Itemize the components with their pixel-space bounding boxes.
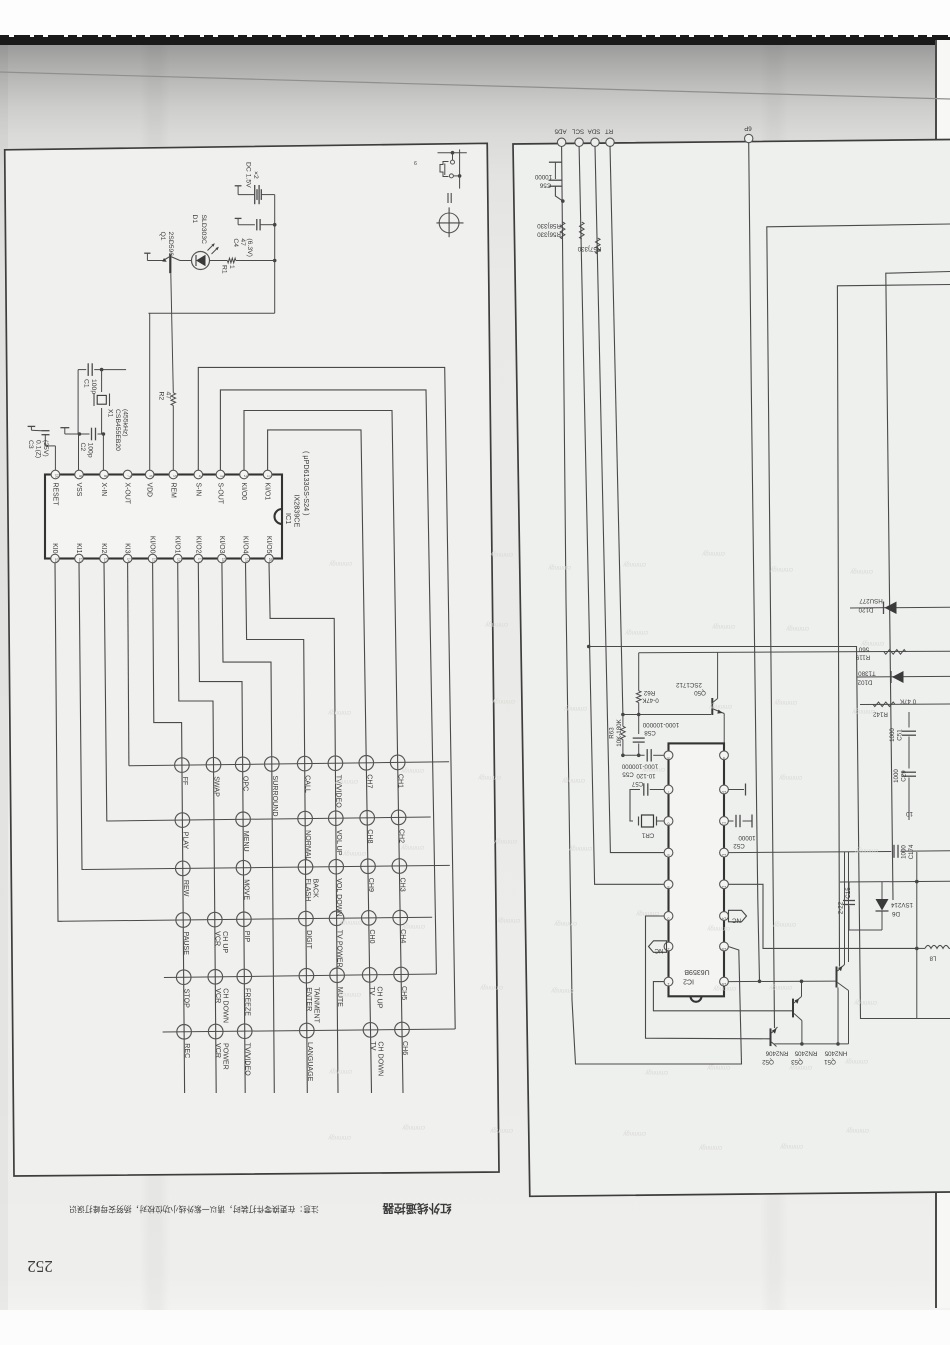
svg-text:KI0: KI0 <box>51 543 58 554</box>
svg-text:cmmngy: cmmngy <box>622 561 646 567</box>
svg-text:TV: TV <box>369 1041 377 1050</box>
svg-text:cmmngy: cmmngy <box>561 777 585 783</box>
svg-text:cmmngy: cmmngy <box>484 621 508 627</box>
svg-text:13: 13 <box>721 885 726 890</box>
svg-text:C56: C56 <box>539 182 551 189</box>
svg-text:KI/O4: KI/O4 <box>242 536 249 554</box>
svg-text:CH7: CH7 <box>365 774 373 788</box>
svg-text:10: 10 <box>54 474 59 479</box>
svg-text:KI/O1: KI/O1 <box>264 483 271 501</box>
svg-text:(25V): (25V) <box>42 440 49 457</box>
svg-text:红外线遥控器: 红外线遥控器 <box>382 1202 451 1216</box>
svg-text:cmmngy: cmmngy <box>778 774 802 780</box>
svg-text:L8: L8 <box>929 955 936 962</box>
svg-text:100p: 100p <box>86 443 93 458</box>
svg-text:cmmngy: cmmngy <box>337 991 361 997</box>
svg-text:R58}330: R58}330 <box>537 222 561 229</box>
svg-text:47: 47 <box>165 392 172 400</box>
svg-text:KI/O5: KI/O5 <box>265 536 272 554</box>
svg-text:cmmngy: cmmngy <box>334 778 358 784</box>
svg-text:cmmngy: cmmngy <box>477 774 501 780</box>
svg-text:SURROUND: SURROUND <box>271 776 279 817</box>
svg-text:Q50: Q50 <box>694 689 706 696</box>
svg-text:HSU277: HSU277 <box>859 597 883 604</box>
svg-text:13: 13 <box>103 558 108 563</box>
svg-text:11: 11 <box>721 822 726 827</box>
svg-text:cmmngy: cmmngy <box>338 919 362 925</box>
svg-text:1: 1 <box>228 265 235 269</box>
svg-text:STOP: STOP <box>183 989 191 1008</box>
svg-text:KI/O2: KI/O2 <box>194 536 201 554</box>
svg-text:cmmngy: cmmngy <box>772 921 796 927</box>
svg-text:12: 12 <box>721 853 726 858</box>
svg-text:10000: 10000 <box>534 173 552 180</box>
svg-text:cmmngy: cmmngy <box>708 703 732 709</box>
svg-text:1000-100000: 1000-100000 <box>642 721 679 728</box>
svg-text:cmmngy: cmmngy <box>563 705 587 711</box>
svg-text:cmmngy: cmmngy <box>851 708 875 714</box>
svg-text:PLAY: PLAY <box>181 832 189 850</box>
svg-text:6P: 6P <box>744 125 752 132</box>
svg-text:D120: D120 <box>858 606 873 613</box>
svg-text:cmmngy: cmmngy <box>550 987 574 993</box>
svg-text:cmmngy: cmmngy <box>547 564 571 570</box>
svg-text:1000: 1000 <box>893 769 900 783</box>
svg-text:KI1: KI1 <box>75 543 82 554</box>
svg-text:cmmngy: cmmngy <box>401 1124 425 1130</box>
svg-text:10000: 10000 <box>738 834 756 841</box>
svg-text:cmmngy: cmmngy <box>401 923 425 929</box>
svg-text:17: 17 <box>197 558 202 563</box>
svg-text:VCR: VCR <box>213 931 221 946</box>
svg-text:VDD: VDD <box>146 483 153 498</box>
svg-text:ENTER: ENTER <box>305 987 313 1011</box>
svg-text:R56}330: R56}330 <box>537 231 561 238</box>
svg-text:C174: C174 <box>908 844 915 859</box>
svg-text:0-47K: 0-47K <box>641 697 658 704</box>
svg-text:cmmngy: cmmngy <box>853 999 877 1005</box>
svg-text:Q1: Q1 <box>159 232 166 241</box>
svg-text:R63: R63 <box>609 727 616 739</box>
svg-text:DC 1.5V: DC 1.5V <box>245 162 252 188</box>
svg-text:NC: NC <box>732 917 741 924</box>
svg-text:cmmngy: cmmngy <box>773 699 797 705</box>
svg-text:VOL UP: VOL UP <box>335 830 343 856</box>
svg-text:X1: X1 <box>107 409 114 418</box>
svg-text:cmmngy: cmmngy <box>712 985 736 991</box>
svg-text:FLASH: FLASH <box>304 879 312 902</box>
svg-text:Q53: Q53 <box>791 1058 803 1065</box>
svg-text:POWER: POWER <box>222 1043 230 1070</box>
svg-text:RESET: RESET <box>51 483 58 507</box>
svg-text:cmmngy: cmmngy <box>496 917 520 923</box>
svg-text:C29: C29 <box>901 770 908 782</box>
svg-text:19: 19 <box>245 558 250 563</box>
svg-text:cmmngy: cmmngy <box>706 1064 730 1070</box>
svg-text:CALL: CALL <box>304 775 312 793</box>
svg-text:cmmngy: cmmngy <box>706 925 730 931</box>
svg-text:cmmngy: cmmngy <box>400 767 424 773</box>
svg-text:cmmngy: cmmngy <box>491 698 515 704</box>
svg-text:HN2405: HN2405 <box>824 1050 847 1057</box>
svg-text:CH1: CH1 <box>397 774 405 788</box>
svg-text:cmmngy: cmmngy <box>644 1069 668 1075</box>
svg-text:cmmngy: cmmngy <box>493 838 517 844</box>
svg-text:cmmngy: cmmngy <box>785 625 809 631</box>
svg-text:MOVE: MOVE <box>243 879 251 900</box>
svg-text:cmmngy: cmmngy <box>641 766 665 772</box>
svg-text:CH2: CH2 <box>398 829 406 843</box>
svg-text:SWAP: SWAP <box>213 776 221 797</box>
svg-text:cmmngy: cmmngy <box>328 560 352 566</box>
svg-text:NC: NC <box>654 947 663 954</box>
svg-text:CH5: CH5 <box>400 986 408 1000</box>
svg-text:VSS: VSS <box>75 483 82 497</box>
svg-text:C51: C51 <box>897 729 904 741</box>
svg-text:2SD596: 2SD596 <box>167 232 174 257</box>
svg-text:cmmngy: cmmngy <box>489 1127 513 1133</box>
svg-text:IC1: IC1 <box>284 513 293 524</box>
svg-text:AD5: AD5 <box>554 128 567 135</box>
svg-text:12: 12 <box>78 558 83 563</box>
svg-text:9: 9 <box>414 159 417 165</box>
svg-text:( μPD6133GS-S24 ): ( μPD6133GS-S24 ) <box>302 451 311 515</box>
svg-text:cmmngy: cmmngy <box>768 984 792 990</box>
svg-text:14: 14 <box>721 917 726 922</box>
svg-text:(6.3V): (6.3V) <box>246 238 253 257</box>
svg-text:KI/O0: KI/O0 <box>240 483 247 501</box>
svg-text:Q52: Q52 <box>762 1058 774 1065</box>
svg-text:X-IN: X-IN <box>100 483 107 497</box>
svg-text:LANGUAGE: LANGUAGE <box>306 1042 314 1082</box>
svg-text:cmmngy: cmmngy <box>400 844 424 850</box>
svg-text:18: 18 <box>221 558 226 563</box>
svg-text:R1: R1 <box>221 265 228 274</box>
svg-text:2-22: 2-22 <box>838 901 845 914</box>
svg-text:10: 10 <box>906 810 913 817</box>
svg-text:C3: C3 <box>27 440 34 449</box>
svg-text:cmmngy: cmmngy <box>711 623 735 629</box>
svg-text:TV: TV <box>368 986 376 995</box>
svg-text:cmmngy: cmmngy <box>844 1058 868 1064</box>
svg-text:CH6: CH6 <box>401 1041 409 1055</box>
svg-text:CH UP: CH UP <box>376 986 384 1008</box>
svg-text:cmmngy: cmmngy <box>860 640 884 646</box>
svg-text:CH DOWN: CH DOWN <box>377 1041 385 1076</box>
svg-text:CH4: CH4 <box>399 929 407 943</box>
svg-text:RN2405: RN2405 <box>794 1050 817 1057</box>
svg-text:CH8: CH8 <box>366 829 374 843</box>
svg-text:PAUSE: PAUSE <box>182 932 190 956</box>
svg-text:cmmngy: cmmngy <box>327 709 351 715</box>
svg-text:U6359B: U6359B <box>684 968 710 975</box>
svg-text:16: 16 <box>177 558 182 563</box>
svg-text:SDA: SDA <box>587 128 601 135</box>
svg-text:cmmngy: cmmngy <box>479 984 503 990</box>
svg-text:cmmngy: cmmngy <box>622 1130 646 1136</box>
svg-text:CSB455EB20: CSB455EB20 <box>114 409 121 451</box>
svg-text:X-OUT: X-OUT <box>124 483 131 505</box>
svg-text:Q51: Q51 <box>824 1058 836 1065</box>
svg-text:×2: ×2 <box>252 171 259 179</box>
svg-text:cmmngy: cmmngy <box>698 1144 722 1150</box>
svg-text:VCR: VCR <box>214 988 222 1003</box>
svg-text:IX2839CE: IX2839CE <box>293 495 302 528</box>
svg-text:2SC1712: 2SC1712 <box>676 681 702 688</box>
svg-text:T1380: T1380 <box>858 670 876 677</box>
svg-text:0 47K: 0 47K <box>899 698 916 705</box>
svg-text:cmmngy: cmmngy <box>635 910 659 916</box>
svg-text:TV/VIDEO: TV/VIDEO <box>244 1043 252 1077</box>
svg-text:KI2: KI2 <box>100 543 107 554</box>
svg-text:cmmngy: cmmngy <box>849 568 873 574</box>
svg-text:C2: C2 <box>79 443 86 452</box>
svg-text:BACK: BACK <box>312 879 320 899</box>
svg-text:DIGIT: DIGIT <box>305 930 313 950</box>
svg-text:cmmngy: cmmngy <box>553 920 577 926</box>
svg-text:C58: C58 <box>644 729 656 736</box>
svg-text:SCL: SCL <box>572 128 585 135</box>
svg-text:R62: R62 <box>643 689 655 696</box>
svg-text:0.1(Z): 0.1(Z) <box>35 440 42 458</box>
svg-text:C15: C15 <box>845 887 852 899</box>
svg-text:10K-180K: 10K-180K <box>616 718 623 746</box>
svg-text:10: 10 <box>721 790 726 795</box>
svg-text:CH DOWN: CH DOWN <box>221 988 229 1023</box>
svg-text:OPC: OPC <box>242 776 250 791</box>
svg-text:cmmngy: cmmngy <box>701 550 725 556</box>
svg-text:S-IN: S-IN <box>194 483 201 497</box>
svg-text:C57: C57 <box>631 780 643 787</box>
svg-text:cmmngy: cmmngy <box>624 629 648 635</box>
svg-text:注意：在更换零件打装时，请以一紫外线小功位校对，扬努安母峰打: 注意：在更换零件打装时，请以一紫外线小功位校对，扬努安母峰打误识 <box>69 1205 319 1215</box>
svg-text:15: 15 <box>721 947 726 952</box>
svg-text:cmmngy: cmmngy <box>328 1068 352 1074</box>
svg-text:S-OUT: S-OUT <box>216 483 223 505</box>
svg-text:RT: RT <box>605 128 613 135</box>
svg-text:REW: REW <box>182 880 190 897</box>
svg-text:cmmngy: cmmngy <box>568 845 592 851</box>
svg-text:FREEZE: FREEZE <box>243 988 251 1016</box>
svg-text:1000: 1000 <box>889 728 896 742</box>
svg-text:D102: D102 <box>857 679 872 686</box>
svg-text:CH9: CH9 <box>367 878 375 892</box>
svg-text:REM: REM <box>169 483 176 499</box>
svg-text:11: 11 <box>54 558 59 563</box>
svg-text:KI/O1: KI/O1 <box>174 536 181 554</box>
svg-text:CH UP: CH UP <box>221 931 229 953</box>
svg-text:TAINMENT: TAINMENT <box>312 987 320 1023</box>
svg-text:C52: C52 <box>733 842 745 849</box>
svg-text:MENU: MENU <box>242 831 250 852</box>
svg-text:C55: C55 <box>622 771 634 778</box>
svg-text:14: 14 <box>127 558 132 563</box>
svg-text:CH3: CH3 <box>398 878 406 892</box>
svg-text:R119: R119 <box>855 654 870 661</box>
svg-text:IC2: IC2 <box>683 978 694 985</box>
svg-text:100p: 100p <box>90 379 97 394</box>
svg-text:20: 20 <box>268 558 273 563</box>
svg-text:KI/O0: KI/O0 <box>149 536 156 554</box>
svg-text:cmmngy: cmmngy <box>342 850 366 856</box>
svg-text:KI3: KI3 <box>124 543 131 554</box>
svg-text:15: 15 <box>152 558 157 563</box>
svg-text:REC: REC <box>183 1043 191 1058</box>
svg-text:CR1: CR1 <box>641 832 654 839</box>
svg-text:C4: C4 <box>232 238 239 247</box>
svg-text:PIP: PIP <box>243 931 251 943</box>
svg-text:D1: D1 <box>191 215 198 224</box>
svg-text:VCR: VCR <box>214 1043 222 1058</box>
svg-text:cmmngy: cmmngy <box>788 1064 812 1070</box>
svg-text:KI/O3: KI/O3 <box>218 536 225 554</box>
svg-text:1SV214: 1SV214 <box>890 901 913 908</box>
svg-text:cmmngy: cmmngy <box>327 1134 351 1140</box>
svg-text:R57}330: R57}330 <box>577 245 601 252</box>
svg-text:252: 252 <box>27 1257 53 1276</box>
svg-text:47: 47 <box>239 238 246 246</box>
svg-text:cmmngy: cmmngy <box>779 1143 803 1149</box>
svg-text:C1: C1 <box>83 379 90 388</box>
svg-text:cmmngy: cmmngy <box>854 847 878 853</box>
svg-text:cmmngy: cmmngy <box>769 566 793 572</box>
svg-text:cmmngy: cmmngy <box>845 1127 869 1133</box>
svg-text:D6: D6 <box>891 910 899 917</box>
svg-text:R2: R2 <box>158 392 165 401</box>
svg-text:TV POWER: TV POWER <box>336 930 344 968</box>
svg-text:1000: 1000 <box>901 845 908 859</box>
svg-text:FF: FF <box>181 777 189 786</box>
svg-text:CH0: CH0 <box>368 929 376 943</box>
svg-text:NORMAL: NORMAL <box>304 830 312 860</box>
svg-text:RN2406: RN2406 <box>765 1050 788 1057</box>
svg-text:cmmngy: cmmngy <box>489 551 513 557</box>
svg-text:10-120: 10-120 <box>636 772 656 779</box>
svg-text:SLD303C: SLD303C <box>200 215 207 245</box>
svg-text:(455kHz): (455kHz) <box>122 409 129 437</box>
